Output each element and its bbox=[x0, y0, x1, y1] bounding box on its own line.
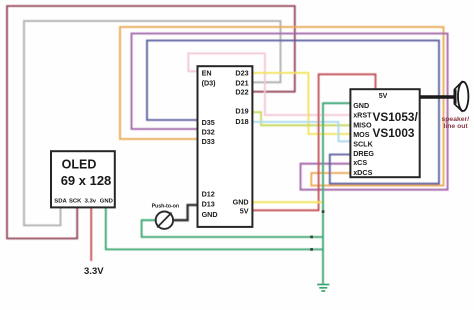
svg-text:SCK: SCK bbox=[69, 198, 82, 204]
svg-text:MISO: MISO bbox=[353, 120, 372, 129]
junction dot on green rail 2 bbox=[310, 248, 313, 251]
wire yellow: MCU GND to ground rail bbox=[252, 201, 322, 203]
wire dark red: MCU D22 to OLED SCK (outer loop) bbox=[7, 6, 295, 239]
wire lime: MCU D19 to VS1053 MISO bbox=[252, 112, 350, 125]
MCU U1 (ESP32 dev board) bbox=[198, 66, 253, 227]
junction dot on green rail 1 bbox=[310, 236, 313, 239]
svg-text:GND: GND bbox=[233, 198, 249, 207]
svg-text:VS1003: VS1003 bbox=[373, 126, 415, 140]
wire yellow: MCU D23 to VS1053 MOS bbox=[252, 73, 350, 134]
svg-text:GND: GND bbox=[100, 198, 113, 204]
wire teal: VS1053 GND down to ground bbox=[323, 103, 350, 284]
svg-text:GND: GND bbox=[202, 210, 218, 219]
svg-text:xRST: xRST bbox=[353, 111, 372, 120]
wire green: OLED GND to ground rail bbox=[106, 207, 323, 249]
svg-text:D35: D35 bbox=[202, 118, 215, 127]
VS1053 part name bbox=[373, 110, 419, 140]
VS1053 module U2 bbox=[350, 89, 419, 177]
wire red: OLED 3.3v down to 3.3V label bbox=[90, 207, 92, 261]
wire cyan: MCU D18 to VS1053 SCLK bbox=[252, 122, 350, 141]
svg-text:D13: D13 bbox=[202, 200, 215, 209]
wire black: push button to MCU D13 bbox=[173, 205, 197, 220]
ground symbol bbox=[317, 285, 329, 292]
speaker wire (thick) bbox=[420, 95, 454, 98]
svg-text:GND: GND bbox=[353, 101, 369, 110]
svg-text:DREG: DREG bbox=[353, 149, 374, 158]
push-to-on switch SW1 bbox=[156, 212, 173, 229]
svg-text:3.3v: 3.3v bbox=[85, 198, 97, 204]
svg-text:D33: D33 bbox=[202, 137, 215, 146]
svg-text:Push-to-on: Push-to-on bbox=[152, 203, 179, 209]
svg-text:(D3): (D3) bbox=[202, 79, 217, 88]
svg-text:xCS: xCS bbox=[353, 158, 367, 167]
svg-text:5V: 5V bbox=[240, 207, 249, 216]
OLED display module bbox=[51, 151, 115, 207]
svg-text:D18: D18 bbox=[235, 117, 248, 126]
svg-text:MOS: MOS bbox=[353, 130, 370, 139]
OLED pin labels bbox=[54, 198, 113, 204]
wire gray: MCU D21 to OLED SDA bbox=[24, 21, 281, 225]
svg-text:D12: D12 bbox=[202, 190, 215, 199]
svg-text:OLED: OLED bbox=[62, 158, 97, 172]
wire navy: MCU D35 to VS1053 DREG (around top and right) bbox=[147, 41, 439, 184]
speaker SP1 bbox=[455, 82, 469, 111]
svg-text:5V: 5V bbox=[379, 93, 388, 100]
wire green: push button to ground rail bbox=[142, 220, 323, 237]
svg-text:EN: EN bbox=[202, 69, 212, 78]
junction dot on teal rail bbox=[322, 210, 325, 213]
svg-text:SCLK: SCLK bbox=[353, 140, 373, 149]
svg-text:SDA: SDA bbox=[54, 198, 67, 204]
svg-text:VS1053/: VS1053/ bbox=[373, 110, 419, 124]
svg-text:D23: D23 bbox=[235, 69, 248, 78]
svg-text:D19: D19 bbox=[235, 107, 248, 116]
svg-text:69 x 128: 69 x 128 bbox=[61, 173, 112, 188]
VS1053 left pin labels bbox=[353, 101, 374, 177]
svg-text:D22: D22 bbox=[235, 88, 248, 97]
wire red: MCU 5V to VS1053 5V (top) bbox=[252, 74, 375, 210]
svg-text:line out: line out bbox=[444, 123, 469, 130]
speaker / line out label bbox=[442, 116, 470, 130]
svg-text:D32: D32 bbox=[202, 128, 215, 137]
wire pink: MCU EN to VS1053 xRST bbox=[188, 53, 350, 115]
MCU left pin labels bbox=[202, 69, 218, 220]
wire orange: MCU D33 to VS1053 xDCS (around top and right) bbox=[120, 27, 444, 186]
MCU right pin labels bbox=[233, 69, 249, 216]
wire purple: MCU D32 to VS1053 xCS (around top and right) bbox=[132, 34, 448, 190]
svg-text:3.3V: 3.3V bbox=[84, 266, 104, 277]
svg-text:xDCS: xDCS bbox=[353, 168, 372, 177]
svg-text:D21: D21 bbox=[235, 79, 248, 88]
